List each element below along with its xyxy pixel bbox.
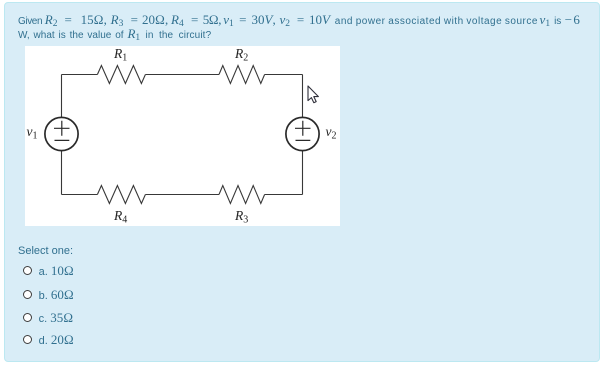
svg-text:R1: R1 xyxy=(113,46,127,64)
svg-text:v2: v2 xyxy=(326,124,337,142)
svg-text:R4: R4 xyxy=(113,208,127,226)
svg-text:v1: v1 xyxy=(27,124,38,142)
svg-text:R3: R3 xyxy=(234,208,248,226)
svg-text:R2: R2 xyxy=(234,46,248,64)
